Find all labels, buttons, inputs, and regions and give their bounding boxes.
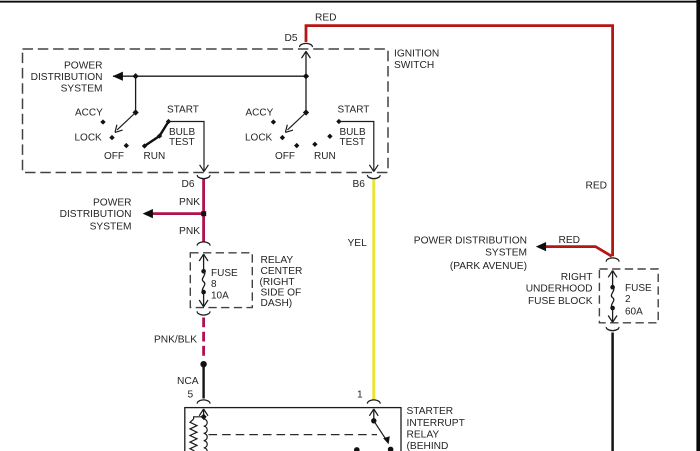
svg-text:1: 1 [357,389,363,400]
svg-text:SYSTEM: SYSTEM [90,222,132,233]
svg-text:DISTRIBUTION: DISTRIBUTION [60,209,132,220]
svg-text:RELAY: RELAY [261,255,294,266]
svg-text:START: START [338,105,370,116]
svg-text:SWITCH: SWITCH [394,60,434,71]
svg-text:60A: 60A [625,306,643,317]
svg-text:PNK: PNK [179,226,200,237]
svg-text:IGNITION: IGNITION [394,49,439,60]
svg-text:START: START [167,105,199,116]
svg-text:RUN: RUN [144,151,166,162]
svg-text:NCA: NCA [177,376,199,387]
svg-text:STARTER: STARTER [407,406,454,417]
svg-text:D6: D6 [182,179,195,190]
svg-text:POWER DISTRIBUTION: POWER DISTRIBUTION [414,236,527,247]
svg-text:LOCK: LOCK [245,133,273,144]
svg-text:SYSTEM: SYSTEM [61,84,103,95]
svg-text:CENTER: CENTER [261,266,303,277]
svg-text:RED: RED [315,13,337,24]
svg-text:OFF: OFF [104,151,124,162]
svg-text:FUSE BLOCK: FUSE BLOCK [528,296,593,307]
svg-text:(BEHIND: (BEHIND [407,441,449,451]
svg-text:5: 5 [188,389,194,400]
svg-text:POWER: POWER [93,198,132,209]
svg-text:ACCY: ACCY [246,108,274,119]
svg-text:8: 8 [211,279,217,290]
svg-text:YEL: YEL [348,238,368,249]
svg-text:INTERRUPT: INTERRUPT [407,418,465,429]
svg-text:(RIGHT: (RIGHT [260,277,295,288]
svg-text:RED: RED [586,181,608,192]
svg-text:D5: D5 [285,33,298,44]
svg-text:RUN: RUN [314,151,336,162]
svg-text:SYSTEM: SYSTEM [485,247,527,258]
svg-text:LOCK: LOCK [75,133,103,144]
svg-text:DASH): DASH) [261,298,293,309]
svg-text:FUSE: FUSE [211,268,238,279]
svg-text:ACCY: ACCY [75,108,103,119]
svg-text:SIDE OF: SIDE OF [261,287,302,298]
svg-text:TEST: TEST [340,137,366,148]
svg-text:FUSE: FUSE [625,283,652,294]
svg-text:PNK/BLK: PNK/BLK [154,335,197,346]
svg-text:DISTRIBUTION: DISTRIBUTION [31,72,103,83]
svg-text:10A: 10A [211,290,229,301]
svg-text:TEST: TEST [169,137,195,148]
svg-text:RIGHT: RIGHT [561,272,593,283]
svg-text:POWER: POWER [64,60,103,71]
svg-text:UNDERHOOD: UNDERHOOD [526,284,593,295]
svg-text:B6: B6 [353,179,366,190]
svg-text:OFF: OFF [275,151,295,162]
svg-text:(PARK AVENUE): (PARK AVENUE) [450,261,527,272]
svg-text:RED: RED [559,235,581,246]
svg-text:2: 2 [625,294,631,305]
svg-text:PNK: PNK [179,197,200,208]
svg-text:RELAY: RELAY [407,429,440,440]
